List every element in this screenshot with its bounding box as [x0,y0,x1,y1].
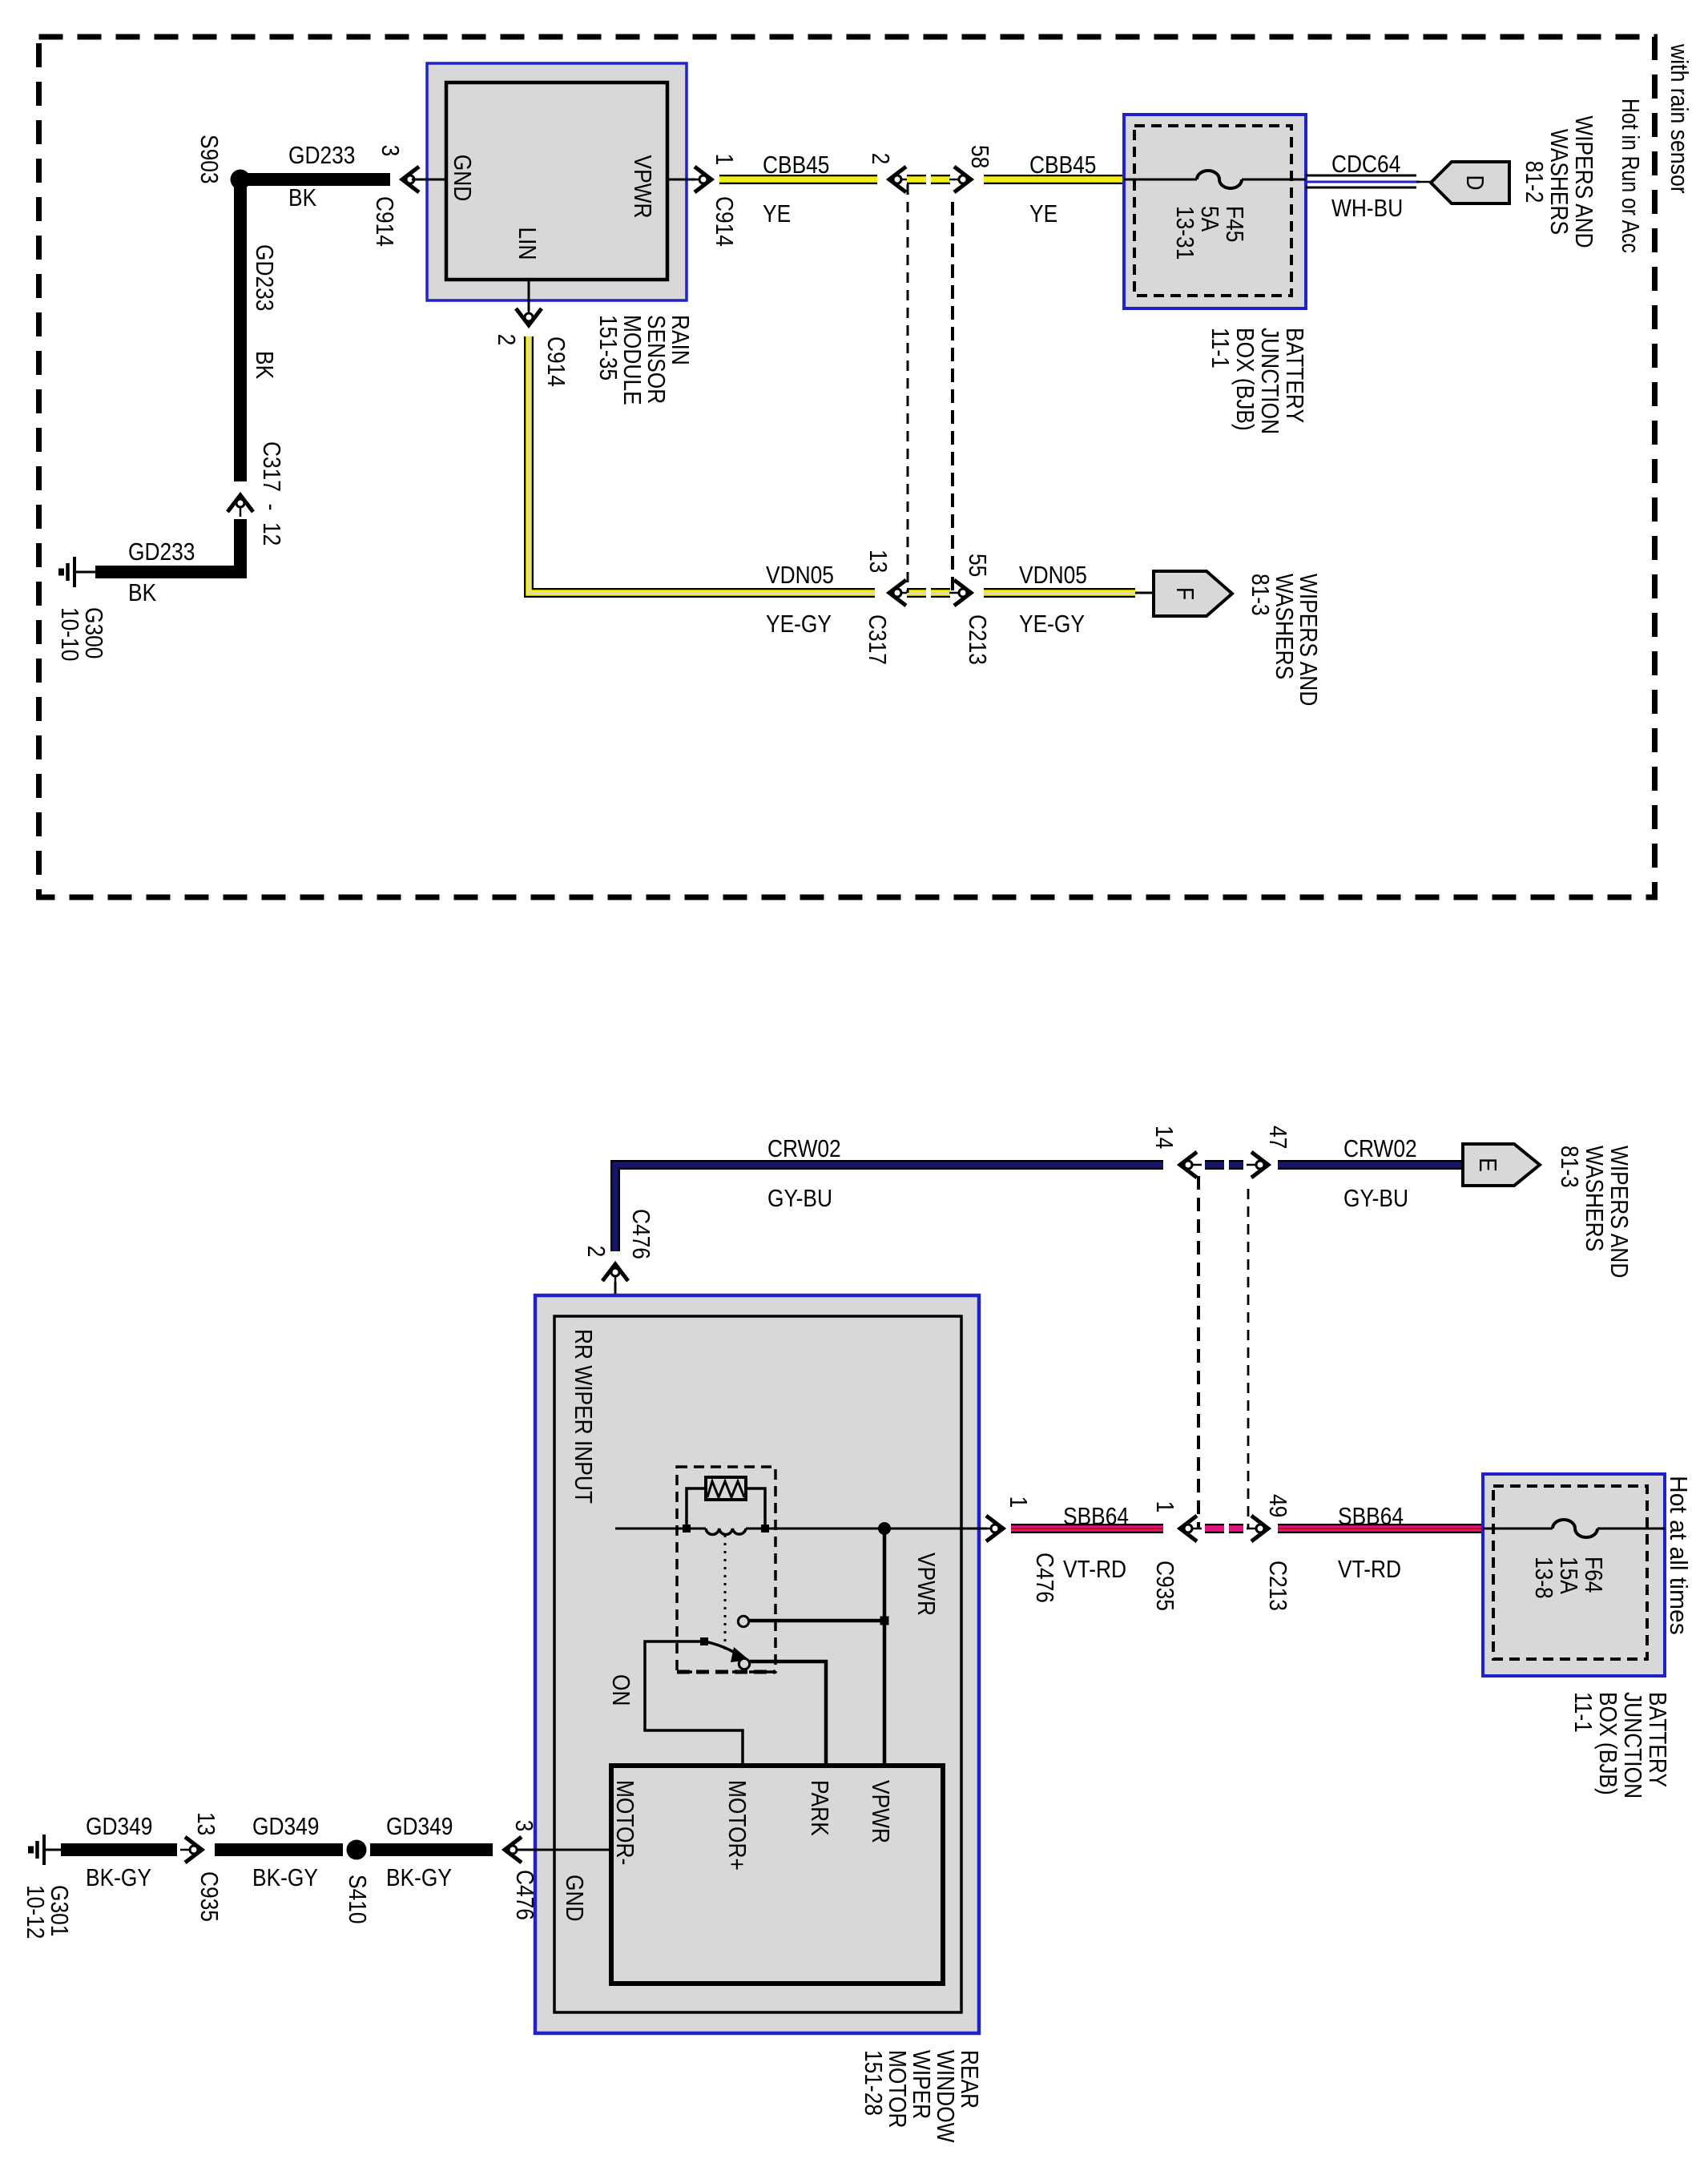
svg-text:CRW02: CRW02 [767,1135,841,1162]
svg-text:CBB45: CBB45 [763,151,829,179]
svg-text:C914: C914 [710,196,737,247]
svg-text:49: 49 [1263,1494,1291,1517]
svg-text:C935: C935 [1150,1561,1178,1611]
svg-text:3: 3 [510,1820,537,1832]
svg-text:C317 - 12: C317 - 12 [257,441,284,546]
svg-text:1: 1 [1150,1501,1178,1513]
svg-text:GY-BU: GY-BU [1343,1185,1408,1212]
svg-text:14: 14 [1150,1126,1177,1149]
svg-text:PARK: PARK [805,1780,832,1836]
svg-text:BK: BK [250,351,277,379]
svg-text:GD233: GD233 [288,142,355,169]
svg-text:YE: YE [1029,200,1057,228]
svg-text:BK: BK [288,184,316,211]
svg-text:MOTOR+: MOTOR+ [723,1780,750,1871]
svg-text:1: 1 [710,154,737,166]
svg-text:with rain sensor: with rain sensor [1665,43,1692,194]
svg-text:GD233: GD233 [128,538,195,566]
svg-text:2: 2 [866,153,893,165]
svg-text:1: 1 [1004,1496,1031,1508]
svg-text:WH-BU: WH-BU [1331,195,1403,222]
svg-text:E: E [1473,1158,1501,1172]
svg-text:GD233: GD233 [250,244,277,311]
svg-text:GD349: GD349 [86,1813,152,1840]
svg-text:C213: C213 [963,614,990,665]
svg-text:CRW02: CRW02 [1343,1135,1417,1162]
svg-text:S410: S410 [343,1875,370,1924]
svg-text:ON: ON [606,1674,634,1706]
svg-text:C213: C213 [1263,1561,1291,1611]
svg-text:YE-GY: YE-GY [1019,610,1085,638]
svg-text:C476: C476 [510,1870,538,1920]
svg-text:Hot at all times: Hot at all times [1665,1476,1693,1635]
svg-text:13: 13 [191,1812,219,1835]
svg-text:VDN05: VDN05 [766,562,834,589]
svg-text:CBB45: CBB45 [1029,151,1096,179]
svg-text:VDN05: VDN05 [1019,562,1087,589]
svg-text:SBB64: SBB64 [1063,1503,1129,1530]
svg-text:SBB64: SBB64 [1338,1503,1404,1530]
svg-text:Hot in Run or Acc: Hot in Run or Acc [1617,99,1644,253]
svg-text:C476: C476 [1030,1553,1057,1603]
svg-text:GD349: GD349 [252,1813,319,1840]
svg-text:GY-BU: GY-BU [767,1185,832,1212]
svg-text:BK-GY: BK-GY [386,1864,452,1891]
svg-text:BK-GY: BK-GY [86,1864,151,1891]
svg-text:C914: C914 [370,196,397,247]
svg-text:D: D [1460,175,1488,190]
svg-text:G30110-12: G30110-12 [21,1885,72,1939]
svg-text:BK: BK [128,579,156,606]
svg-text:VPWR: VPWR [628,155,655,219]
svg-text:BK-GY: BK-GY [252,1864,318,1891]
svg-text:VPWR: VPWR [866,1780,893,1843]
svg-text:2: 2 [582,1246,609,1258]
svg-text:VPWR: VPWR [912,1553,939,1616]
svg-text:VT-RD: VT-RD [1063,1556,1126,1583]
svg-text:13: 13 [864,550,891,573]
svg-text:55: 55 [963,554,990,577]
svg-text:C914: C914 [542,336,569,387]
svg-text:RR WIPER INPUT: RR WIPER INPUT [569,1329,596,1504]
svg-text:3: 3 [376,145,403,157]
svg-text:GND: GND [560,1875,587,1922]
svg-text:2: 2 [492,334,519,346]
svg-text:58: 58 [965,145,993,168]
svg-text:LIN: LIN [513,228,540,260]
svg-text:47: 47 [1263,1126,1291,1149]
svg-text:MOTOR-: MOTOR- [610,1780,638,1865]
svg-text:S903: S903 [195,135,222,184]
svg-text:YE-GY: YE-GY [766,610,832,638]
svg-text:G30010-10: G30010-10 [55,607,107,661]
svg-text:CDC64: CDC64 [1331,151,1400,178]
svg-text:VT-RD: VT-RD [1338,1556,1401,1583]
svg-text:F: F [1170,587,1198,600]
svg-text:C935: C935 [195,1871,222,1922]
svg-text:F6415A13-8: F6415A13-8 [1529,1557,1606,1599]
svg-text:C476: C476 [626,1209,654,1259]
svg-text:GD349: GD349 [386,1813,453,1840]
svg-text:YE: YE [763,200,791,228]
svg-text:GND: GND [448,155,475,202]
svg-text:C317: C317 [863,614,890,665]
